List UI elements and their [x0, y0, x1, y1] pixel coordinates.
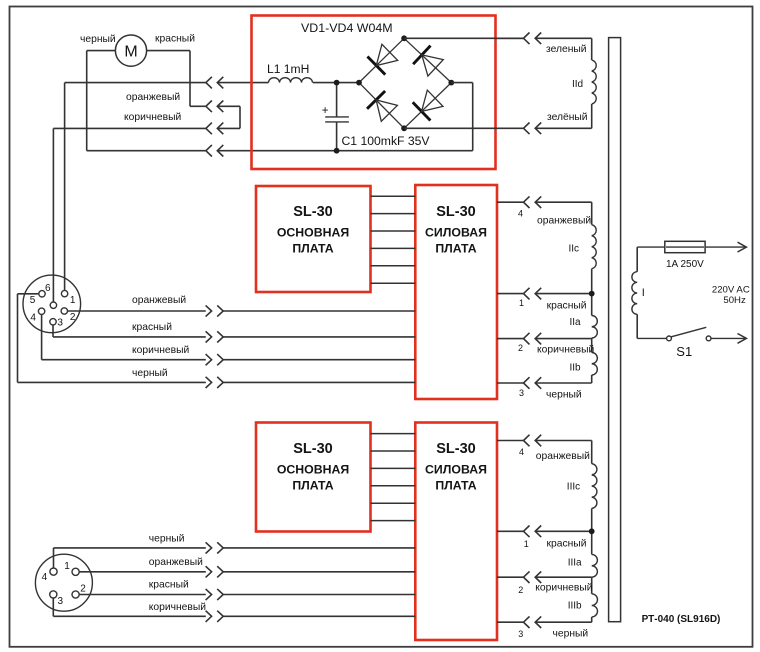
svg-text:IIIc: IIIc	[567, 482, 580, 493]
svg-text:L1 1mH: L1 1mH	[267, 62, 309, 76]
svg-text:оранжевый: оранжевый	[537, 215, 591, 226]
svg-text:черный: черный	[149, 534, 185, 545]
svg-text:1A 250V: 1A 250V	[666, 259, 704, 270]
svg-text:ПЛАТА: ПЛАТА	[435, 479, 476, 493]
svg-text:IIb: IIb	[570, 363, 582, 374]
svg-text:СИЛОВАЯ: СИЛОВАЯ	[425, 463, 487, 477]
svg-text:коричневый: коричневый	[132, 345, 189, 356]
svg-text:1: 1	[64, 561, 70, 572]
svg-text:черный: черный	[80, 34, 116, 45]
svg-text:5: 5	[30, 295, 36, 306]
svg-text:ПЛАТА: ПЛАТА	[292, 242, 333, 256]
svg-text:черный: черный	[546, 389, 582, 400]
svg-text:2: 2	[70, 312, 76, 323]
svg-text:оранжевый: оранжевый	[536, 451, 590, 462]
svg-text:СИЛОВАЯ: СИЛОВАЯ	[425, 226, 487, 240]
svg-text:SL-30: SL-30	[436, 441, 476, 457]
svg-text:SL-30: SL-30	[293, 441, 333, 457]
svg-text:красный: красный	[155, 34, 195, 45]
svg-text:коричневый: коричневый	[124, 112, 181, 123]
svg-text:3: 3	[519, 388, 524, 398]
svg-text:красный: красный	[149, 580, 189, 591]
svg-text:1: 1	[519, 298, 524, 308]
svg-text:3: 3	[57, 317, 63, 328]
svg-text:I: I	[642, 287, 645, 299]
svg-text:1: 1	[524, 539, 529, 549]
svg-text:4: 4	[42, 572, 48, 583]
svg-text:оранжевый: оранжевый	[126, 92, 180, 103]
svg-text:4: 4	[519, 447, 524, 457]
svg-text:SL-30: SL-30	[293, 204, 333, 220]
svg-text:C1 100mkF 35V: C1 100mkF 35V	[342, 134, 431, 148]
svg-text:черный: черный	[132, 368, 168, 379]
svg-text:1: 1	[70, 295, 76, 306]
svg-text:красный: красный	[132, 322, 172, 333]
svg-text:зелёный: зелёный	[547, 112, 588, 123]
svg-text:ПЛАТА: ПЛАТА	[435, 242, 476, 256]
svg-text:VD1-VD4 W04M: VD1-VD4 W04M	[301, 21, 393, 35]
svg-text:ПЛАТА: ПЛАТА	[292, 479, 333, 493]
svg-text:IIIa: IIIa	[568, 557, 582, 568]
svg-text:4: 4	[518, 208, 523, 218]
svg-text:оранжевый: оранжевый	[132, 295, 186, 306]
svg-text:SL-30: SL-30	[436, 204, 476, 220]
svg-text:зеленый: зеленый	[546, 44, 587, 55]
svg-text:2: 2	[518, 343, 523, 353]
svg-text:2: 2	[518, 585, 523, 595]
svg-text:оранжевый: оранжевый	[149, 557, 203, 568]
svg-text:2: 2	[80, 584, 86, 595]
svg-text:черный: черный	[553, 629, 589, 640]
svg-text:S1: S1	[676, 344, 692, 359]
svg-text:ОСНОВНАЯ: ОСНОВНАЯ	[277, 226, 350, 240]
svg-text:220V AC: 220V AC	[712, 284, 750, 295]
svg-text:50Hz: 50Hz	[723, 295, 746, 306]
svg-text:M: M	[124, 43, 137, 60]
svg-text:4: 4	[30, 313, 36, 324]
svg-text:3: 3	[58, 596, 64, 607]
svg-text:IIc: IIc	[569, 244, 580, 255]
svg-text:IIa: IIa	[570, 317, 582, 328]
svg-text:IIIb: IIIb	[568, 601, 582, 612]
svg-text:ОСНОВНАЯ: ОСНОВНАЯ	[277, 463, 350, 477]
svg-text:+: +	[322, 105, 329, 117]
svg-text:красный: красный	[547, 539, 587, 550]
svg-text:РТ-040 (SL916D): РТ-040 (SL916D)	[642, 614, 721, 625]
svg-text:красный: красный	[547, 301, 587, 312]
svg-text:3: 3	[518, 629, 523, 639]
svg-text:коричневый: коричневый	[537, 345, 594, 356]
svg-text:6: 6	[45, 283, 51, 294]
svg-text:коричневый: коричневый	[535, 583, 592, 594]
svg-text:коричневый: коричневый	[149, 602, 206, 613]
svg-text:IId: IId	[572, 79, 583, 90]
